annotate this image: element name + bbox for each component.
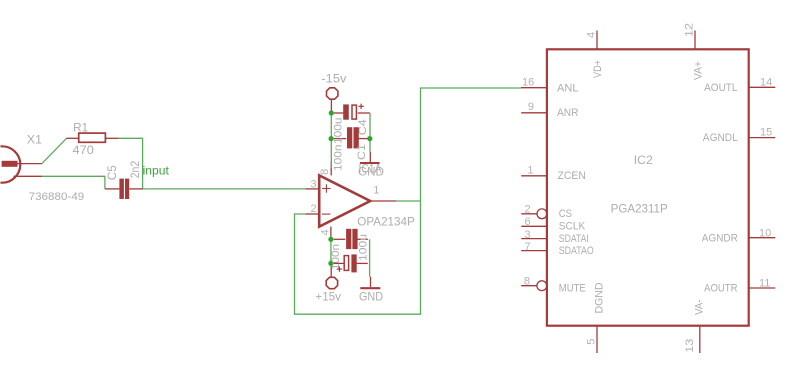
svg-text:4: 4 xyxy=(319,229,331,235)
op-amp IC1A pin 4 stub xyxy=(330,227,332,238)
wire +15v rail xyxy=(330,239,332,263)
svg-text:OPA2134P: OPA2134P xyxy=(357,215,415,229)
capacitor C3 xyxy=(334,262,344,264)
wire jack tip to R1 (diagonal) xyxy=(42,138,67,163)
wire R1 to input node xyxy=(119,138,143,189)
wire -15v rail xyxy=(330,113,332,168)
svg-text:10: 10 xyxy=(759,227,771,239)
svg-text:GND: GND xyxy=(358,165,384,179)
svg-text:C1: C1 xyxy=(356,144,368,160)
resistor R1 xyxy=(79,133,106,142)
svg-text:AOUTR: AOUTR xyxy=(704,283,737,295)
svg-text:SCLK: SCLK xyxy=(559,220,586,232)
svg-text:100n: 100n xyxy=(333,145,345,172)
svg-text:14: 14 xyxy=(760,77,772,89)
capacitor C5 xyxy=(105,188,120,190)
svg-text:1: 1 xyxy=(527,164,533,176)
IC2 pin 8 MUTE xyxy=(521,285,537,287)
op-amp IC1A pin 3 stub xyxy=(305,188,319,190)
junction dot xyxy=(367,136,372,141)
svg-text:3: 3 xyxy=(311,179,317,191)
IC2 pin 14 AOUTL xyxy=(749,86,776,88)
junction dot xyxy=(329,110,334,115)
wire input net xyxy=(143,188,306,190)
svg-text:736880-49: 736880-49 xyxy=(29,191,85,203)
IC2 pin 3 SDATAI xyxy=(521,238,547,240)
IC2 pin 13 VA- xyxy=(699,326,701,353)
svg-text:3: 3 xyxy=(524,229,530,241)
svg-text:VA-: VA- xyxy=(694,299,706,315)
C4 polarity plus xyxy=(358,105,363,107)
svg-text:2n2: 2n2 xyxy=(130,161,142,179)
op-amp minus mark xyxy=(322,213,330,215)
ground GND top xyxy=(369,152,371,162)
svg-text:15: 15 xyxy=(760,126,772,138)
svg-text:VD+: VD+ xyxy=(592,60,604,78)
svg-text:11: 11 xyxy=(759,278,770,290)
wire jack sleeve to C5 xyxy=(42,176,105,189)
svg-text:C5: C5 xyxy=(107,165,119,180)
IC2 pin 16 ANL xyxy=(521,87,547,89)
op-amp IC1A pin 2 stub xyxy=(305,213,319,215)
ground GND bottom xyxy=(370,277,372,287)
svg-text:ANL: ANL xyxy=(557,83,579,95)
svg-text:13: 13 xyxy=(684,339,696,353)
svg-text:IC2: IC2 xyxy=(634,155,653,167)
svg-text:12: 12 xyxy=(684,23,696,37)
svg-text:4: 4 xyxy=(585,32,597,38)
svg-text:VA+: VA+ xyxy=(693,61,705,80)
svg-text:AOUTL: AOUTL xyxy=(704,82,737,94)
supply -15v symbol xyxy=(327,88,338,99)
svg-text:CS: CS xyxy=(559,208,572,220)
IC2 pin 15 AGNDL xyxy=(749,137,776,139)
svg-text:MUTE: MUTE xyxy=(559,282,586,294)
svg-text:470: 470 xyxy=(73,143,95,157)
svg-text:DGND: DGND xyxy=(594,282,606,313)
IC2 pin 12 VA+ xyxy=(694,31,696,50)
svg-text:SDATAI: SDATAI xyxy=(559,233,589,245)
capacitor C4 xyxy=(334,112,345,114)
wire cap right rail top xyxy=(369,113,371,152)
svg-text:2: 2 xyxy=(524,204,530,216)
svg-text:AGNDR: AGNDR xyxy=(702,232,738,244)
op-amp IC1A pin 1 stub xyxy=(371,200,396,202)
IC2 pin 5 DGND xyxy=(596,326,598,353)
X1 tip contact xyxy=(2,161,18,167)
op-amp IC1A triangle xyxy=(319,175,370,226)
svg-text:100n: 100n xyxy=(330,244,342,270)
IC2 pin 4 VD+ xyxy=(596,31,598,50)
svg-text:8: 8 xyxy=(524,275,530,287)
svg-text:GND: GND xyxy=(359,290,383,304)
svg-text:-15v: -15v xyxy=(321,72,346,86)
IC2 pin 6 SCLK xyxy=(521,225,547,227)
svg-text:SDATAO: SDATAO xyxy=(559,245,594,257)
X1 pin tip xyxy=(18,163,42,165)
wire cap right rail bottom xyxy=(369,239,371,276)
svg-text:R1: R1 xyxy=(73,120,88,134)
capacitor C1 xyxy=(334,138,347,140)
supply +15v symbol xyxy=(326,277,337,288)
svg-text:100u: 100u xyxy=(333,118,345,145)
svg-text:6: 6 xyxy=(524,216,530,228)
svg-text:5: 5 xyxy=(585,339,597,345)
svg-text:+15v: +15v xyxy=(315,289,341,303)
wire output xyxy=(396,200,421,202)
svg-text:ZCEN: ZCEN xyxy=(558,170,586,182)
junction dot xyxy=(328,261,333,266)
svg-text:16: 16 xyxy=(522,77,534,89)
junction dot xyxy=(328,237,333,242)
op-amp plus mark xyxy=(322,188,330,190)
IC2 pin 1 ZCEN xyxy=(521,175,547,177)
svg-text:9: 9 xyxy=(528,101,534,113)
op-amp IC1A pin 8 stub xyxy=(330,161,332,175)
svg-text:input: input xyxy=(143,164,170,178)
IC2 box xyxy=(547,49,749,325)
svg-text:7: 7 xyxy=(524,241,530,253)
connector X1 xyxy=(0,146,20,186)
IC2 pin 9 ANR xyxy=(521,112,547,114)
IC2 pin 2 CS xyxy=(521,213,537,215)
svg-text:X1: X1 xyxy=(27,132,42,146)
X1 pin sleeve xyxy=(14,175,42,177)
svg-text:1: 1 xyxy=(373,184,379,196)
IC2 pin 7 SDATAO xyxy=(521,250,547,252)
svg-text:ANR: ANR xyxy=(557,107,579,119)
C3 polarity plus xyxy=(337,268,342,270)
svg-text:AGNDL: AGNDL xyxy=(703,132,738,144)
IC2 pin 10 AGNDR xyxy=(749,237,776,239)
svg-text:PGA2311P: PGA2311P xyxy=(611,204,668,216)
svg-text:100u: 100u xyxy=(357,234,369,261)
wire feedback loop xyxy=(295,88,522,314)
capacitor C2 xyxy=(334,238,346,240)
junction dot xyxy=(329,136,334,141)
svg-text:2: 2 xyxy=(311,203,317,215)
IC2 pin 11 AOUTR xyxy=(749,287,776,289)
svg-text:8: 8 xyxy=(319,169,331,175)
